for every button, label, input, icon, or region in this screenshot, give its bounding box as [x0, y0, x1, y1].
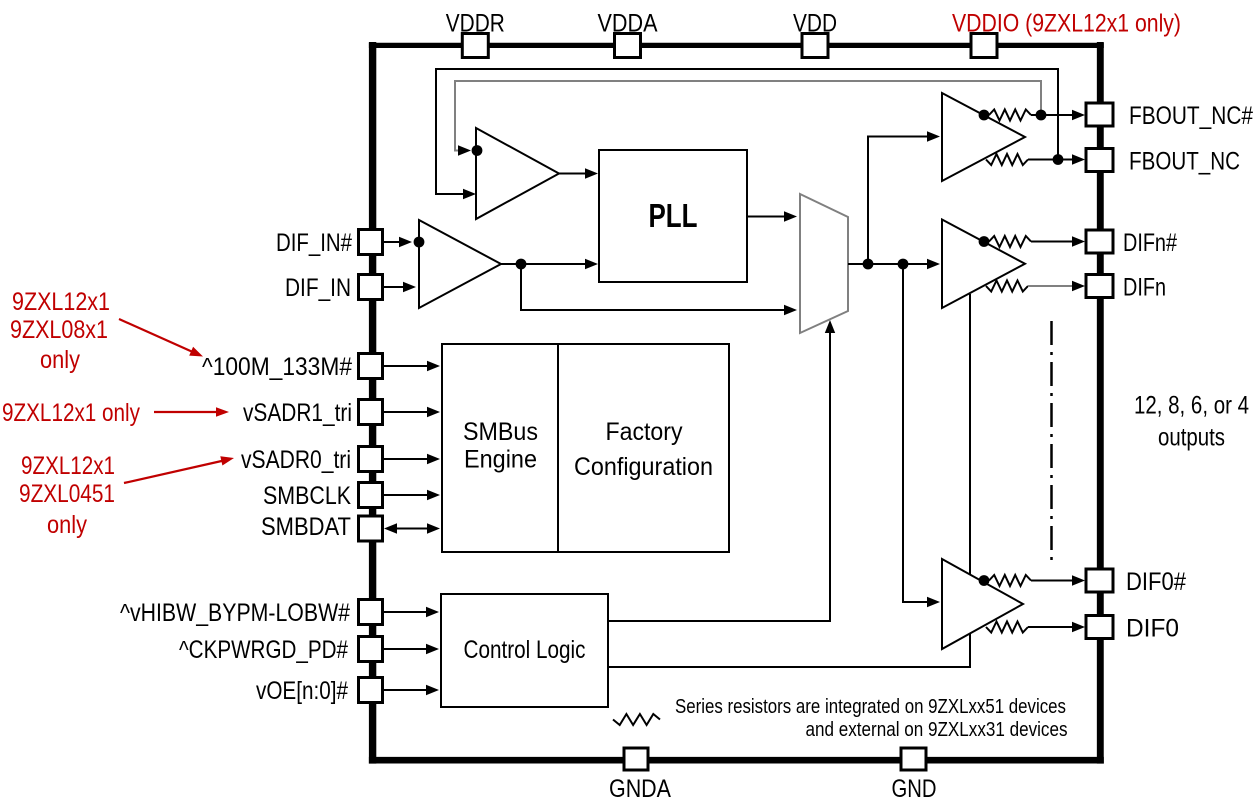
svg-text:vSADR0_tri: vSADR0_tri: [241, 446, 351, 474]
wire: black feedback from FBOUT_NC to feedback buffer lower input: [436, 69, 1058, 194]
pin vOE[n:0]#: [359, 678, 383, 703]
pin FBOUT_NC#: [1086, 103, 1113, 126]
junction dot on mux output (branch to FBOUT buffer): [863, 259, 874, 270]
series resistor on DIFn# output: [989, 236, 1031, 247]
svg-text:VDDIO (9ZXL12x1 only): VDDIO (9ZXL12x1 only): [952, 10, 1181, 38]
svg-text:DIF_IN: DIF_IN: [285, 274, 351, 302]
pin DIF0#: [1086, 569, 1113, 592]
arrowhead vSADR1_tri: [427, 407, 440, 417]
wire: vOE[n:0]# pin to Control Logic: [383, 689, 432, 691]
divider between SMBus Engine and Factory Configuration: [557, 344, 559, 552]
wire: resistor to DIF0 pin: [1028, 626, 1078, 628]
junction dot on U1 output: [516, 259, 527, 270]
svg-text:DIF0#: DIF0#: [1126, 568, 1186, 596]
pin DIFn#: [1086, 230, 1113, 253]
pin VDD: [802, 34, 828, 58]
arrowhead into mux select: [825, 320, 835, 333]
svg-text:9ZXL12x1: 9ZXL12x1: [21, 452, 115, 480]
junction dot FBOUT_NC# feedback tap: [1036, 110, 1047, 121]
svg-text:only: only: [40, 346, 80, 374]
svg-text:^100M_133M#: ^100M_133M#: [202, 353, 352, 381]
svg-text:9ZXL12x1: 9ZXL12x1: [12, 288, 110, 316]
wire: DIF_IN# pin to U1 upper input: [383, 241, 405, 243]
wire: output-enable vertical between DIF0 and DIFn buffers: [969, 294, 971, 574]
svg-text:GND: GND: [892, 775, 937, 802]
output buffer U3 (FBOUT): [942, 93, 1025, 181]
pin vSADR0_tri: [359, 447, 383, 472]
wire: mux select from Control Logic: [608, 327, 830, 621]
wire (gray): resistor to DIFn pin: [1028, 285, 1072, 287]
junction dot at feedback buffer upper input: [472, 145, 483, 156]
red arrow to ^100M_133M#: [119, 319, 195, 353]
red arrow to vSADR0_tri: [124, 460, 226, 483]
pin FBOUT_NC: [1086, 149, 1113, 172]
pin DIF_IN#: [359, 230, 383, 255]
arrowhead into DIFn# pin: [1072, 236, 1085, 246]
Control Logic box: [441, 594, 608, 707]
wire: resistor to DIF0# pin: [1031, 580, 1078, 582]
svg-text:9ZXL08x1: 9ZXL08x1: [10, 316, 108, 344]
pin VDDA: [615, 34, 641, 58]
wire: PLL output to mux upper input: [747, 216, 789, 218]
wire: gray feedback from FBOUT_NC# to feedback buffer upper input: [455, 81, 1041, 151]
legend series resistor symbol: [613, 714, 660, 725]
arrowhead into FBOUT_NC# pin: [1072, 110, 1085, 120]
arrowhead into feedback buffer lower input: [463, 189, 476, 199]
chip boundary left border: [369, 42, 376, 764]
wire: U1 output to PLL input: [501, 263, 591, 265]
series resistor on FBOUT_NC output: [986, 154, 1028, 165]
arrowhead into FBOUT_NC pin: [1072, 154, 1085, 164]
pin DIF0: [1086, 616, 1113, 639]
arrowhead at U1 upper input: [399, 237, 412, 247]
arrowhead into DIFn pin: [1072, 281, 1085, 291]
svg-text:Series resistors are integrate: Series resistors are integrated on 9ZXLx…: [675, 696, 1066, 718]
svg-text:FBOUT_NC#: FBOUT_NC#: [1129, 102, 1253, 130]
junction dot on U3 upper edge: [979, 110, 990, 121]
wire: SMBDAT bidirectional: [392, 528, 432, 530]
arrowhead ^vHIBW_BYPM-LOBW#: [426, 607, 439, 617]
arrowhead into feedback buffer upper input: [458, 145, 471, 155]
svg-text:9ZXL0451: 9ZXL0451: [19, 480, 115, 508]
wire: resistor to DIFn# pin: [1031, 241, 1078, 243]
wire: U2 output to PLL FB input: [559, 173, 591, 175]
wire: ^CKPWRGD_PD# pin to Control Logic: [383, 648, 432, 650]
wire: branch up to FBOUT buffer input: [868, 137, 933, 265]
input buffer U1: [419, 220, 501, 308]
svg-text:Factory: Factory: [606, 418, 683, 446]
svg-text:vSADR1_tri: vSADR1_tri: [243, 399, 352, 427]
pin ^vHIBW_BYPM-LOBW#: [359, 600, 383, 625]
wire: DIF_IN pin to U1 lower input: [383, 286, 407, 288]
junction dot on U4 upper edge: [979, 236, 990, 247]
svg-text:9ZXL12x1 only: 9ZXL12x1 only: [2, 399, 140, 427]
arrowhead SMBDAT right: [427, 523, 440, 533]
pin DIF_IN: [359, 275, 383, 300]
svg-text:outputs: outputs: [1158, 424, 1225, 452]
wire: vSADR1_tri pin to SMBus Engine: [383, 411, 433, 413]
arrowhead into DIF0# pin: [1072, 575, 1085, 585]
svg-text:DIFn#: DIFn#: [1123, 229, 1177, 257]
junction dot at U1 upper input: [414, 237, 425, 248]
svg-text:PLL: PLL: [649, 197, 698, 234]
pin GNDA: [624, 748, 648, 770]
arrowhead vSADR0_tri: [427, 454, 440, 464]
pin ^100M_133M#: [359, 354, 383, 379]
svg-text:GNDA: GNDA: [609, 775, 671, 802]
arrowhead into PLL FB input: [585, 168, 598, 178]
svg-text:DIF0: DIF0: [1126, 615, 1179, 643]
svg-text:only: only: [47, 511, 87, 539]
SMBus Engine / Factory Configuration box: [442, 344, 729, 552]
chip boundary right border: [1097, 42, 1104, 764]
red arrow to vSADR1_tri: [154, 411, 221, 413]
dash-dot line (more outputs): [1050, 321, 1053, 562]
svg-text:VDDR: VDDR: [446, 10, 505, 38]
svg-text:VDDA: VDDA: [598, 10, 658, 38]
arrowhead into DIF0 buffer input: [927, 597, 940, 607]
pin DIFn: [1086, 275, 1113, 298]
wire: resistor to FBOUT_NC pin: [1028, 159, 1078, 161]
arrowhead into mux lower input: [784, 305, 797, 315]
junction dot on U5 upper edge: [979, 575, 990, 586]
arrowhead vOE[n:0]#: [426, 685, 439, 695]
series resistor on DIFn output: [986, 281, 1028, 292]
svg-text:and external on 9ZXLxx31 devic: and external on 9ZXLxx31 devices: [806, 719, 1068, 741]
arrowhead into mux upper input: [784, 211, 797, 221]
pin SMBCLK: [359, 483, 383, 508]
arrowhead into PLL input: [585, 259, 598, 269]
pin VDDR: [462, 34, 488, 58]
pin SMBDAT: [359, 516, 383, 541]
wire: resistor to FBOUT_NC# pin: [1031, 114, 1078, 116]
pin VDDIO: [971, 34, 997, 58]
arrowhead SMBDAT left: [384, 523, 397, 533]
arrowhead into FBOUT buffer input: [927, 131, 940, 141]
junction dot on mux output (branch to DIF0 buffer): [898, 259, 909, 270]
wire: SMBCLK pin to SMBus Engine: [383, 494, 433, 496]
mux M1 (trapezoid): [800, 194, 848, 333]
series resistor on DIF0# output: [989, 575, 1031, 586]
wire: ^vHIBW_BYPM-LOBW# pin to Control Logic: [383, 611, 432, 613]
output buffer U4 (DIFn): [942, 220, 1025, 309]
pin vSADR1_tri: [359, 400, 383, 425]
arrowhead ^100M_133M#: [427, 361, 440, 371]
svg-text:DIFn: DIFn: [1123, 274, 1166, 302]
junction dot FBOUT_NC feedback tap: [1053, 154, 1064, 165]
arrowhead ^CKPWRGD_PD#: [426, 644, 439, 654]
chip boundary bottom border: [369, 757, 1104, 764]
svg-text:^CKPWRGD_PD#: ^CKPWRGD_PD#: [179, 636, 348, 664]
svg-text:DIF_IN#: DIF_IN#: [276, 229, 352, 257]
svg-text:SMBus: SMBus: [463, 418, 538, 446]
svg-text:VDD: VDD: [793, 10, 837, 38]
pin ^CKPWRGD_PD#: [359, 637, 383, 662]
svg-text:Configuration: Configuration: [574, 453, 713, 481]
output buffer U5 (DIF0): [942, 559, 1023, 649]
svg-text:12, 8, 6, or 4: 12, 8, 6, or 4: [1134, 392, 1249, 420]
svg-text:^vHIBW_BYPM-LOBW#: ^vHIBW_BYPM-LOBW#: [120, 599, 350, 627]
wire: mux output to DIFn buffer: [848, 263, 933, 265]
arrowhead SMBCLK: [427, 490, 440, 500]
arrowhead into DIFn buffer input: [927, 259, 940, 269]
feedback input buffer U2: [476, 128, 559, 219]
wire: output-enable from Control Logic to buffers: [608, 633, 970, 667]
wire: vSADR0_tri pin to SMBus Engine: [383, 458, 433, 460]
series resistor on FBOUT_NC# output: [989, 110, 1031, 121]
arrowhead at U1 lower input: [403, 282, 416, 292]
svg-text:Engine: Engine: [464, 446, 537, 474]
svg-text:SMBDAT: SMBDAT: [261, 513, 351, 541]
wire: bypass from U1 output to mux lower input: [521, 264, 789, 310]
chip boundary top border: [369, 43, 1104, 48]
svg-text:SMBCLK: SMBCLK: [263, 482, 351, 510]
pin GND: [901, 748, 926, 770]
svg-text:vOE[n:0]#: vOE[n:0]#: [256, 677, 348, 705]
wire: branch down to DIF0 buffer input: [903, 264, 933, 602]
arrowhead into DIF0 pin: [1072, 622, 1085, 632]
svg-text:FBOUT_NC: FBOUT_NC: [1129, 148, 1240, 176]
series resistor on DIF0 output: [986, 622, 1028, 633]
svg-text:Control Logic: Control Logic: [464, 636, 586, 664]
wire: ^100M_133M# pin to SMBus Engine: [383, 365, 433, 367]
PLL box: [599, 150, 747, 282]
